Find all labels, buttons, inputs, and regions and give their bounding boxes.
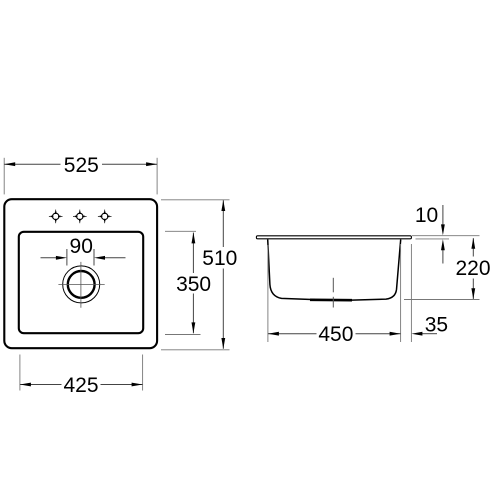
dimension 90: left arrow [41, 257, 58, 259]
drain hole circle (90mm) [68, 271, 95, 298]
dimension 90: right arrow [104, 257, 126, 259]
tap hole marker 3 [98, 210, 112, 224]
tap hole marker 2 [73, 210, 87, 224]
dimension 220: top arrowhead [471, 238, 475, 249]
dimension 35: rim end extension line [410, 244, 412, 342]
dimension 425: right arrowhead [132, 383, 143, 387]
dimension 425: extension lines [19, 355, 21, 391]
svg-text:525: 525 [64, 154, 99, 177]
dimension 525: right arrowhead [146, 162, 157, 166]
svg-text:220: 220 [455, 257, 490, 280]
drain centerline vertical [80, 262, 82, 308]
dimension 350: dimension line [192, 233, 194, 273]
dimension 450: left arrowhead [268, 332, 279, 336]
drain centerline horizontal [58, 284, 104, 286]
dimension 35: arrow (left) with tail [421, 333, 437, 335]
bowl outline (section view) [268, 239, 401, 300]
dimension 450: extension lines [267, 245, 269, 342]
svg-text:35: 35 [425, 313, 448, 336]
drain outer circle [63, 266, 100, 303]
svg-text:425: 425 [63, 374, 98, 397]
dimension 425: left arrowhead [20, 383, 31, 387]
dimension 350: top arrowhead [192, 232, 196, 243]
dimension 10: lower arrow (up) [442, 245, 444, 264]
sink outer rim (top view) [4, 199, 157, 348]
svg-text:350: 350 [176, 273, 211, 296]
dimension 425: dimension line [20, 384, 62, 386]
dimension 220: bowl bottom extension line [404, 299, 480, 301]
dimension 350: bottom arrowhead [192, 322, 196, 333]
sink rim (section view) [256, 236, 411, 239]
bowl bottom drain recess (thicker) [310, 298, 352, 301]
sink bowl inner edge (top view) [19, 232, 143, 333]
dimension 525: extension lines [3, 158, 5, 195]
dimension 525: dimension line [4, 163, 60, 165]
svg-text:10: 10 [415, 204, 438, 227]
dimension 450: dimension line [268, 333, 317, 335]
dimension 510: top arrowhead [221, 200, 225, 211]
dimension 10: rim bottom extension line [416, 238, 450, 240]
dimension 90: extension ticks [66, 249, 68, 266]
svg-text:510: 510 [202, 247, 237, 270]
dimension 220: dimension line [472, 238, 474, 256]
dimension 10: upper arrow (down) [442, 205, 444, 230]
dimension 10: rim top extension line [412, 235, 480, 237]
dimension 350: extension lines [165, 230, 196, 232]
dimension 220: bottom arrowhead [471, 288, 475, 299]
dimension 525: left arrowhead [4, 162, 15, 166]
bowl centerline (dash) [332, 278, 334, 293]
svg-text:450: 450 [318, 323, 353, 346]
svg-text:90: 90 [70, 235, 93, 258]
dimension 510: extension lines [161, 199, 230, 201]
tap hole marker 1 [49, 210, 63, 224]
dimension 510: dimension line [222, 200, 224, 247]
dimension 510: bottom arrowhead [221, 338, 225, 349]
dimension 450: right arrowhead [390, 332, 401, 336]
